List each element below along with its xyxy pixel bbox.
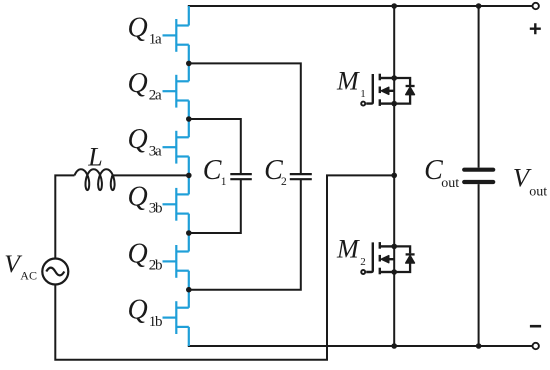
svg-text:L: L — [87, 142, 102, 171]
svg-text:Q: Q — [128, 68, 148, 99]
body-diode D of M1 — [394, 78, 414, 104]
label Q1b — [128, 295, 163, 330]
label Q1a — [128, 12, 163, 47]
node Cout top — [476, 3, 482, 9]
node source dot of M2 — [391, 269, 397, 275]
label Vout — [513, 163, 547, 200]
wire C2 top link — [189, 63, 301, 173]
transistor Q3b — [163, 188, 189, 221]
wire C1 top link — [189, 119, 241, 174]
label Q2a — [128, 68, 163, 103]
terminal minus circle — [533, 343, 539, 349]
sine wave symbol — [46, 268, 64, 276]
label Q3b — [128, 181, 163, 216]
capacitor C1 — [230, 174, 252, 179]
label M2 — [336, 235, 366, 269]
svg-text:Q: Q — [128, 12, 148, 43]
svg-text:Q: Q — [128, 238, 148, 269]
wire VAC return to switch node — [55, 175, 394, 359]
arrow of M2 — [381, 256, 389, 263]
label plus — [530, 23, 541, 34]
svg-text:1b: 1b — [149, 314, 162, 330]
node junction Q2b-Q1b — [186, 287, 192, 293]
wire top rail — [188, 5, 533, 7]
svg-text:3b: 3b — [149, 201, 162, 217]
wire switch chain — [188, 6, 190, 346]
gate terminal of M1 — [361, 102, 365, 106]
node junction Q2a-Q3a — [186, 116, 192, 122]
node junction Q3b-Q2b — [186, 230, 192, 236]
terminal plus circle — [533, 3, 539, 9]
node M leg top — [391, 3, 397, 9]
svg-text:2a: 2a — [149, 88, 162, 104]
transistor Q1b — [163, 301, 189, 334]
svg-text:Q: Q — [128, 295, 148, 326]
capacitor Cout — [464, 170, 493, 182]
wire C1 bottom link — [189, 180, 241, 233]
svg-text:C: C — [203, 155, 222, 186]
label Q2b — [128, 238, 163, 273]
wire C2 bottom link — [189, 180, 301, 290]
wire M1-M2 leg — [393, 6, 395, 346]
svg-text:1: 1 — [360, 88, 366, 100]
svg-text:out: out — [529, 185, 547, 200]
node M leg bottom — [391, 343, 397, 349]
label C2 — [264, 155, 287, 188]
body-diode D of M2 — [394, 246, 414, 272]
svg-text:1a: 1a — [149, 32, 162, 48]
node drain dot of M2 — [391, 244, 397, 250]
svg-text:2: 2 — [360, 256, 366, 268]
svg-text:Q: Q — [128, 124, 148, 155]
label Cout — [424, 155, 459, 191]
svg-text:2b: 2b — [149, 258, 162, 274]
node Cout bottom — [476, 343, 482, 349]
wire bottom rail — [188, 345, 533, 347]
transistor Q2b — [163, 245, 189, 278]
node source dot of M1 — [391, 101, 397, 107]
label C1 — [203, 155, 227, 188]
transistor Q2a — [163, 75, 189, 108]
capacitor C2 — [290, 174, 312, 179]
transistor Q1a — [163, 19, 189, 52]
svg-text:2: 2 — [281, 176, 287, 188]
transistor Q3a — [163, 131, 189, 164]
svg-text:M: M — [336, 66, 360, 95]
svg-text:AC: AC — [20, 268, 37, 282]
label M1 — [336, 66, 366, 100]
node switch node — [391, 173, 397, 179]
gate terminal of M2 — [361, 270, 365, 274]
svg-text:1: 1 — [221, 176, 227, 188]
arrow of M1 — [381, 87, 389, 94]
svg-text:Q: Q — [128, 181, 148, 212]
node drain dot of M1 — [391, 75, 397, 81]
transistor M2 — [366, 242, 394, 274]
wire Cout leg — [478, 6, 480, 346]
label minus — [530, 325, 541, 328]
wire source to inductor — [55, 175, 74, 258]
transistor M1 — [366, 74, 394, 106]
node junction input — [186, 173, 192, 179]
source VAC — [42, 259, 68, 285]
inductor L — [75, 169, 115, 190]
svg-text:M: M — [336, 235, 360, 264]
svg-text:out: out — [441, 176, 459, 191]
label Q3a — [128, 124, 163, 159]
label VAC — [4, 249, 37, 283]
node junction Q1a-Q2a — [186, 61, 192, 67]
svg-text:3a: 3a — [149, 144, 162, 160]
wire inductor to chain — [113, 174, 189, 176]
